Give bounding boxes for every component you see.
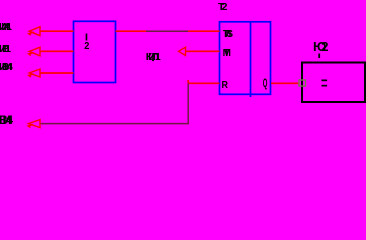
- svg-text:2: 2: [84, 41, 89, 52]
- svg-text:ИВИ4: ИВИ4: [0, 61, 13, 73]
- svg-text:Т2: Т2: [218, 1, 228, 13]
- svg-text:ИИА1: ИИА1: [0, 21, 12, 33]
- svg-text:ИВ1: ИВ1: [0, 43, 11, 55]
- svg-text:ВИ4: ВИ4: [0, 113, 13, 127]
- svg-text:Ю2: Ю2: [313, 39, 329, 54]
- svg-text:КИП1: КИП1: [146, 51, 161, 63]
- svg-text:Q: Q: [263, 77, 268, 91]
- svg-text:ТИS: ТИS: [223, 29, 233, 40]
- svg-text:R: R: [222, 79, 228, 91]
- svg-text:ТМ: ТМ: [223, 48, 231, 59]
